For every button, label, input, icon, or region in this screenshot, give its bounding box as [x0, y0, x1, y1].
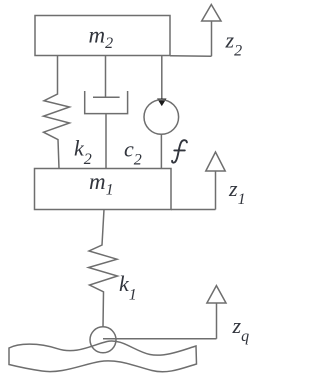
svg-text:m2: m2 — [89, 23, 114, 53]
ground — [9, 341, 197, 372]
svg-text:zq: zq — [232, 313, 250, 345]
arrow z1 — [171, 152, 225, 210]
damper c2 — [85, 56, 128, 169]
svg-text:z1: z1 — [228, 176, 246, 208]
svg-text:z2: z2 — [225, 27, 243, 59]
force source f — [144, 56, 179, 169]
mass m2 — [35, 16, 170, 56]
arrow zq — [103, 286, 226, 339]
svg-text:k1: k1 — [119, 271, 137, 303]
svg-text:c2: c2 — [124, 136, 142, 168]
spring k1 — [89, 210, 118, 328]
spring k2 — [44, 56, 70, 169]
arrow z2 — [170, 5, 221, 57]
svg-text:m1: m1 — [89, 169, 114, 199]
label f — [172, 140, 187, 162]
wheel — [90, 327, 116, 353]
svg-text:k2: k2 — [74, 136, 92, 168]
mass m1 — [35, 169, 172, 210]
